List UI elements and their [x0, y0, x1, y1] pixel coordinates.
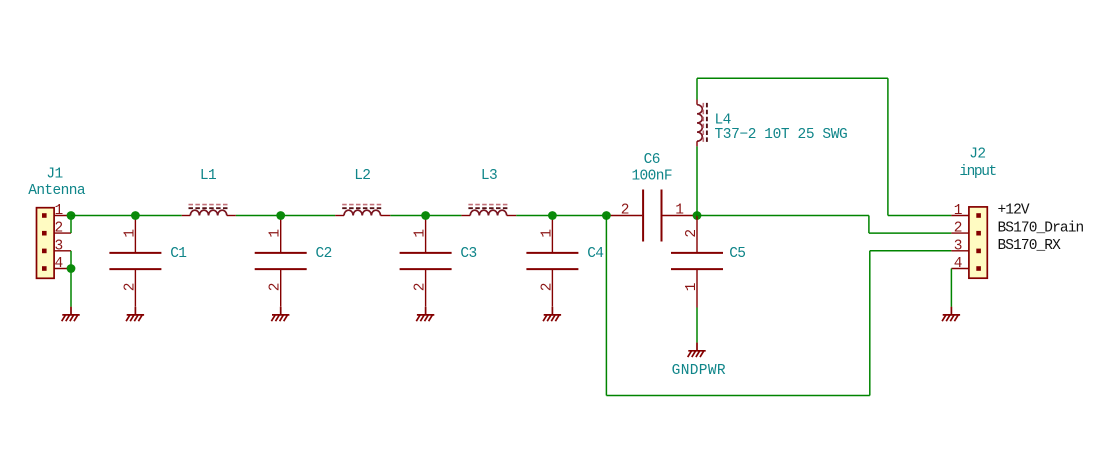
J1 pin 3 stub [54, 250, 71, 252]
node junction J1 pin1 [67, 211, 76, 220]
svg-text:1: 1 [539, 230, 555, 238]
wire J2 pin4 to ground [950, 269, 952, 307]
svg-text:L3: L3 [481, 168, 497, 184]
wire junction to J2 pin2 (horizontal) [697, 215, 869, 217]
svg-text:Antenna: Antenna [28, 183, 86, 199]
J1 pin 1 stub [54, 215, 71, 217]
inductor L3 [461, 205, 516, 216]
svg-text:2: 2 [268, 283, 284, 291]
svg-text:2: 2 [954, 221, 962, 237]
svg-text:2: 2 [539, 283, 555, 291]
node junction C1 tap [131, 211, 140, 220]
ground symbol below C4 [543, 307, 561, 322]
connector J2 body [969, 207, 987, 278]
capacitor C6 (series, horizontal) [606, 190, 697, 242]
wire bottom return horizontal [606, 395, 869, 397]
wire pin3 vertical down [869, 251, 871, 396]
J1 pin 4 stub [54, 268, 71, 270]
wire top loop horizontal [697, 77, 888, 79]
wire drop to pin2 level [868, 216, 870, 234]
J2 pin 3 stub [951, 250, 969, 252]
J2 pin 2 stub [951, 232, 969, 234]
svg-text:C5: C5 [729, 246, 745, 262]
svg-text:3: 3 [954, 238, 962, 254]
ground symbol below C1 [126, 307, 144, 322]
wire main bus L3 to C6 junction [516, 215, 606, 217]
svg-text:1: 1 [54, 203, 62, 219]
svg-text:T37−2 10T 25 SWG: T37−2 10T 25 SWG [715, 127, 848, 143]
svg-text:4: 4 [54, 256, 62, 272]
inductor L2 [335, 205, 390, 216]
wire J1 pin2 up to pin1 junction [70, 216, 72, 234]
svg-text:4: 4 [954, 256, 962, 272]
connector J1 body [37, 208, 55, 279]
node junction C2 tap [276, 211, 285, 220]
svg-text:C6: C6 [644, 152, 660, 168]
svg-text:C4: C4 [587, 246, 603, 262]
svg-text:2: 2 [684, 230, 700, 238]
svg-text:C3: C3 [460, 246, 476, 262]
svg-text:3: 3 [54, 238, 62, 254]
svg-text:L4: L4 [715, 112, 731, 128]
capacitor C4 [526, 216, 578, 307]
svg-text:GNDPWR: GNDPWR [672, 363, 726, 379]
wire L4 bottom to junction [696, 146, 698, 215]
svg-text:J2: J2 [969, 147, 985, 163]
wire to J2 pin2 [869, 232, 952, 234]
svg-text:2: 2 [621, 203, 629, 219]
svg-text:2: 2 [122, 283, 138, 291]
svg-text:1: 1 [413, 230, 429, 238]
svg-text:J1: J1 [46, 167, 62, 183]
node junction C6 left [602, 211, 611, 220]
capacitor C3 [400, 216, 452, 307]
svg-text:BS170_Drain: BS170_Drain [998, 220, 1084, 236]
svg-text:1: 1 [684, 283, 700, 291]
node junction J1 pin4 [67, 264, 76, 273]
ground symbol below J1 [62, 307, 80, 322]
capacitor C5 (shunt at C6 output) [671, 216, 723, 308]
wire J2 pin3 to left [870, 250, 952, 252]
node junction C3 tap [421, 211, 430, 220]
node junction C6 right / C5 / L4 [693, 211, 702, 220]
svg-text:1: 1 [268, 230, 284, 238]
wire to J2 pin1 [888, 215, 952, 217]
wire top loop vertical down to J2 pin1 [887, 78, 889, 215]
svg-text:input: input [959, 164, 996, 180]
wire J1 pin3 down to pin4 junction [70, 251, 72, 269]
wire bottom return vertical up to C6 junction [605, 216, 607, 396]
J2 pin 1 stub [951, 215, 969, 217]
svg-text:1: 1 [954, 203, 962, 219]
node junction C4 tap [548, 211, 557, 220]
J1 pin 2 stub [54, 232, 71, 234]
wire main bus J1 to L1 [71, 215, 182, 217]
svg-text:BS170_RX: BS170_RX [998, 238, 1062, 254]
wire L4 top to loop [696, 78, 698, 99]
inductor L1 [182, 205, 236, 216]
wire main bus L1 to L2 [236, 215, 335, 217]
ground symbol below J2 [942, 307, 960, 322]
svg-text:C1: C1 [170, 246, 186, 262]
ground symbol below C2 [271, 307, 289, 322]
svg-text:C2: C2 [316, 246, 332, 262]
ground symbol GNDPWR below C5 [688, 343, 706, 358]
capacitor C2 [255, 216, 307, 307]
J2 pin 4 stub [951, 268, 969, 270]
svg-text:100nF: 100nF [631, 169, 672, 185]
svg-text:L2: L2 [354, 168, 370, 184]
svg-text:L1: L1 [200, 168, 216, 184]
wire J1 pin4 down to ground [70, 269, 72, 307]
capacitor C1 [109, 216, 161, 307]
wire C5 to ground [696, 308, 698, 343]
svg-text:1: 1 [675, 203, 683, 219]
svg-text:1: 1 [122, 230, 138, 238]
svg-text:+12V: +12V [998, 203, 1030, 219]
svg-text:2: 2 [413, 283, 429, 291]
inductor L4 (vertical) [697, 100, 707, 147]
ground symbol below C3 [416, 307, 434, 322]
wire main bus L2 to L3 [390, 215, 461, 217]
svg-text:2: 2 [54, 221, 62, 237]
